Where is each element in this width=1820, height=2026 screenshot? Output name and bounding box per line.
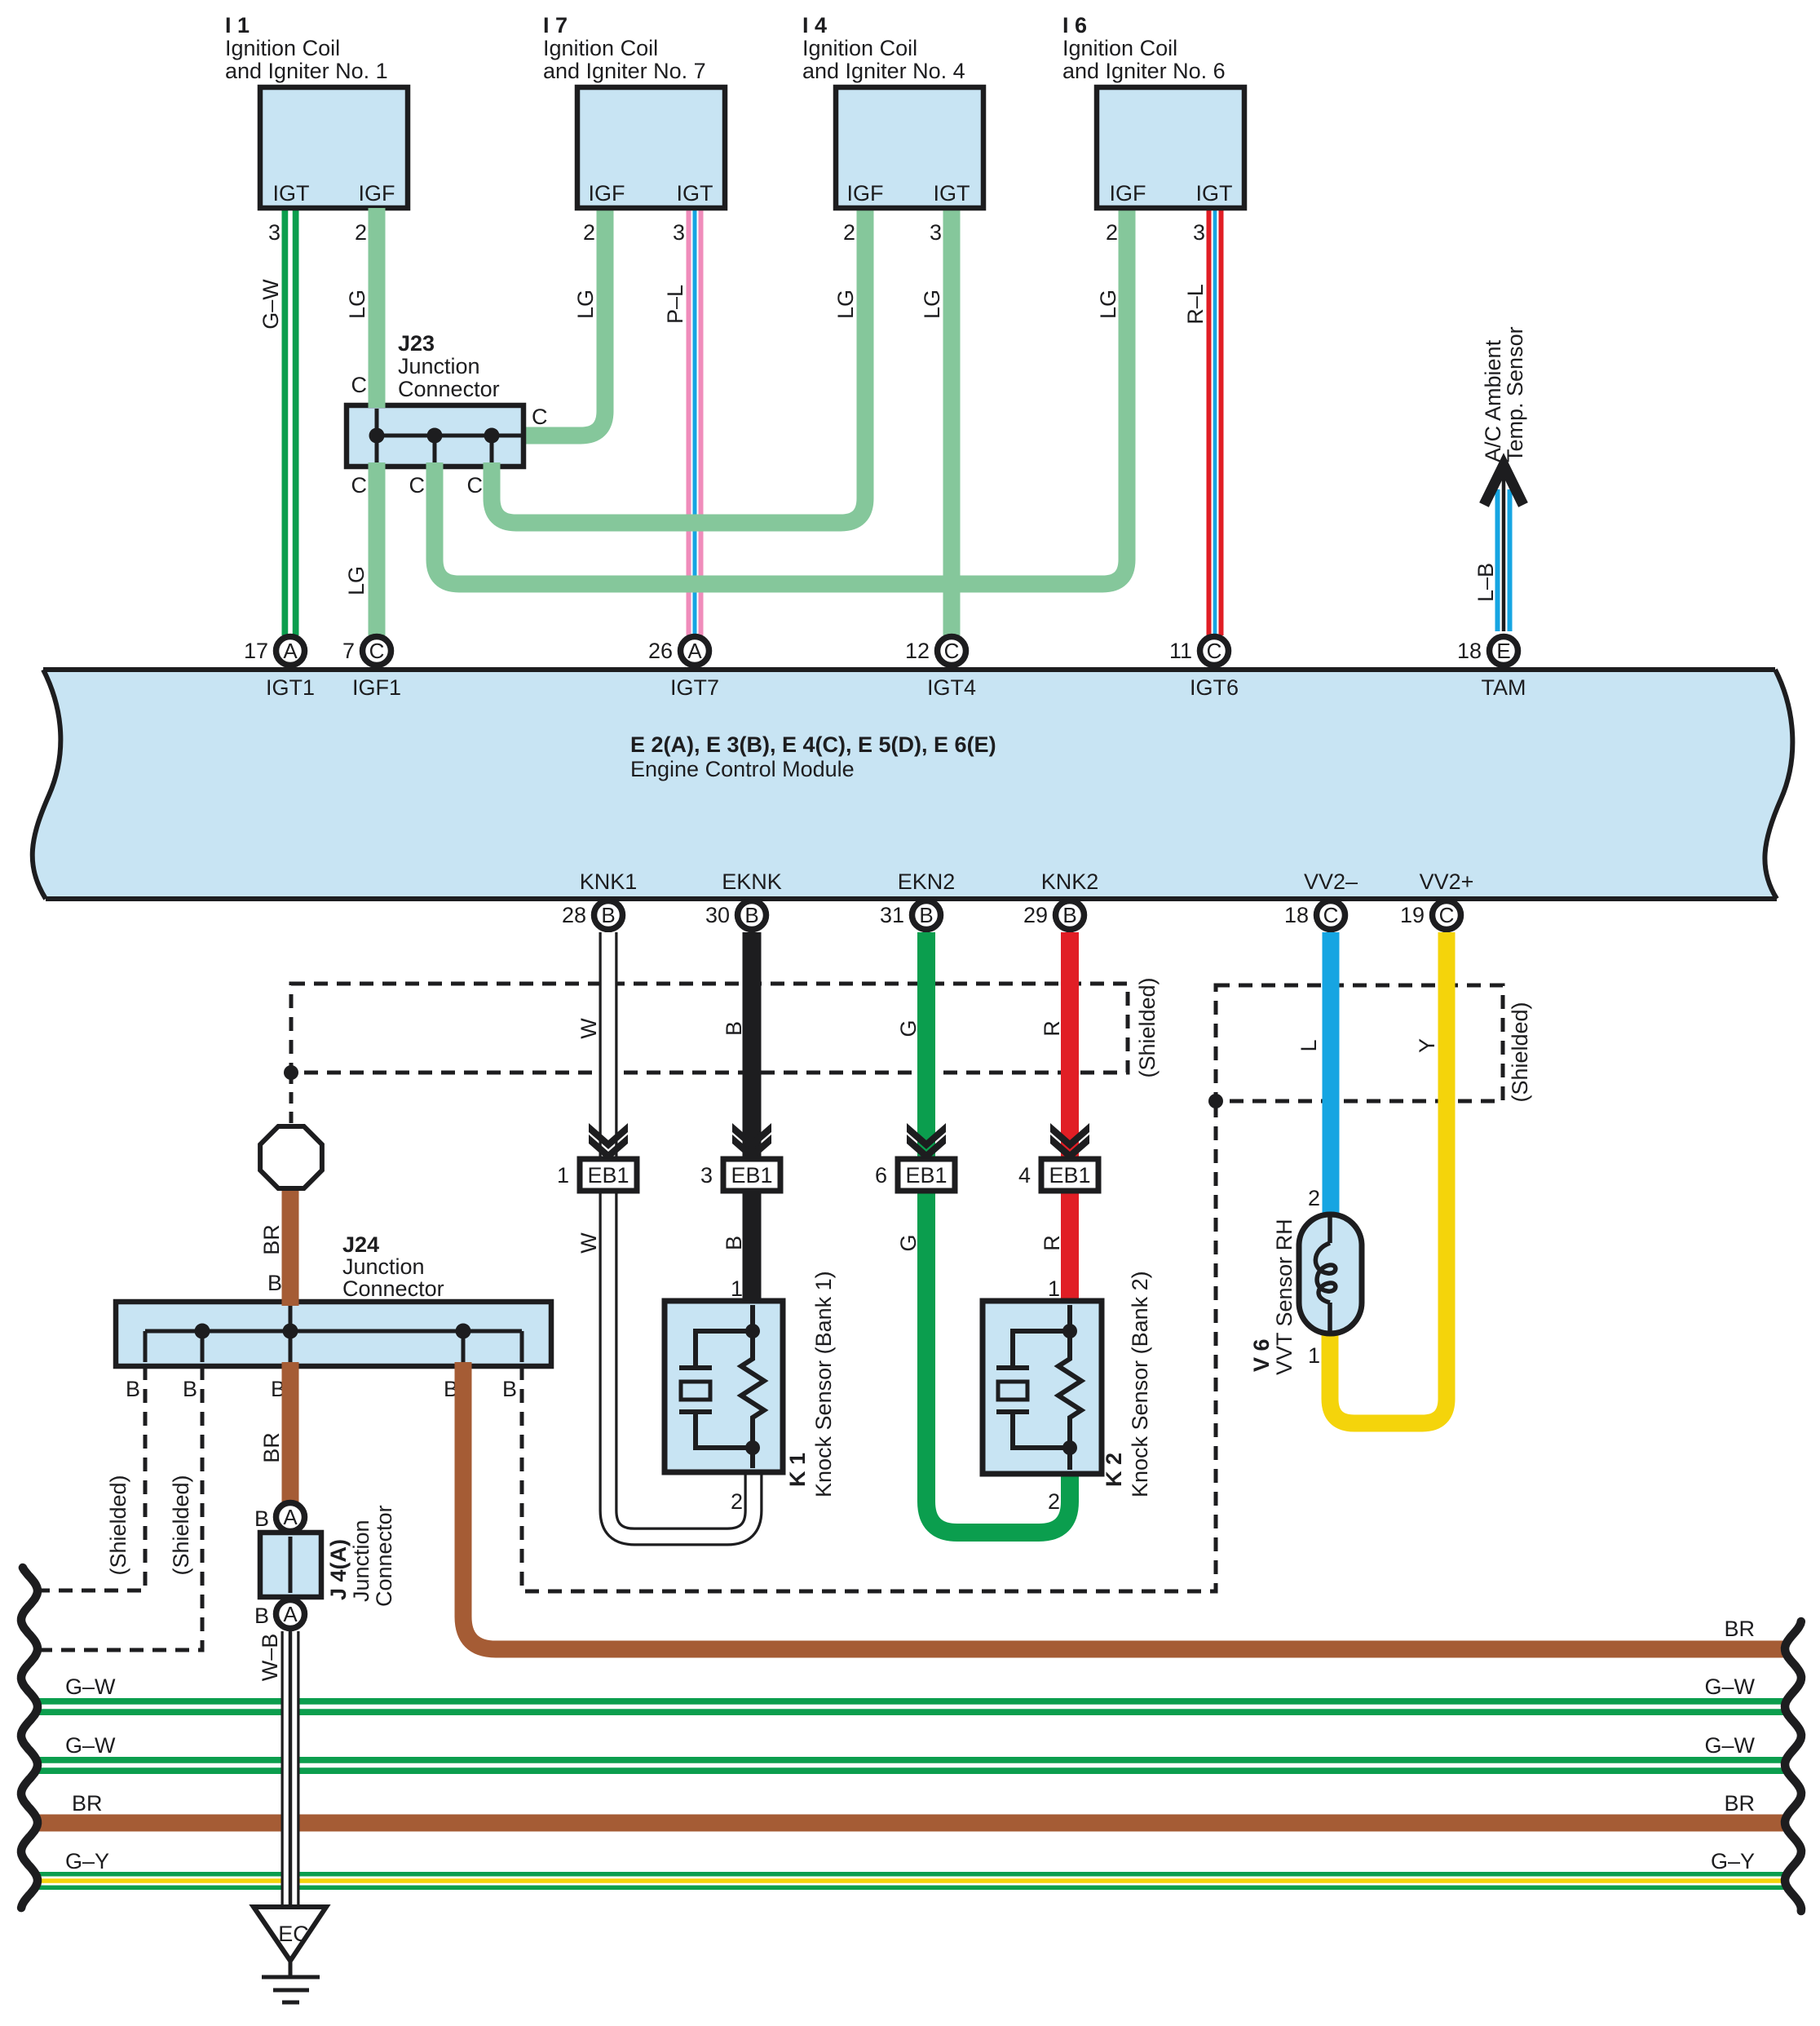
- wire B EKNK (ECM 30B to EB1-3 to K1 pin1): [743, 932, 762, 1305]
- ground EC: [254, 1907, 326, 2002]
- svg-text:Ignition Coil: Ignition Coil: [225, 36, 340, 60]
- svg-text:K 2: K 2: [1102, 1453, 1126, 1487]
- svg-text:A: A: [687, 639, 702, 663]
- J24 divider pin5: [520, 1331, 524, 1362]
- J23 junction dot 2: [427, 428, 443, 444]
- svg-text:A: A: [283, 639, 298, 663]
- bus G-W 1: [34, 1698, 1784, 1715]
- shield dashed box (knock sensor wires): [291, 984, 1128, 1073]
- svg-text:LG: LG: [345, 290, 369, 319]
- connector EB1-4: [1018, 1159, 1098, 1191]
- svg-text:Junction: Junction: [398, 354, 480, 378]
- svg-text:C: C: [409, 473, 426, 498]
- svg-text:G–Y: G–Y: [1711, 1849, 1755, 1873]
- svg-text:W–B: W–B: [258, 1634, 282, 1682]
- svg-text:IGF: IGF: [589, 181, 625, 206]
- svg-text:G–W: G–W: [1704, 1674, 1755, 1699]
- ECM pin 11 C (IGT6): [1169, 637, 1239, 701]
- wire R KNK2 (ECM 29B to EB1-4 to K2 pin1): [1061, 932, 1079, 1305]
- svg-text:(Shielded): (Shielded): [1508, 1002, 1532, 1102]
- svg-text:W: W: [576, 1232, 601, 1254]
- svg-text:6: 6: [875, 1163, 887, 1188]
- svg-text:IGT: IGT: [934, 181, 970, 206]
- J23 junction dot 1: [369, 428, 385, 444]
- svg-text:VV2–: VV2–: [1304, 869, 1358, 894]
- svg-text:18: 18: [1457, 639, 1482, 663]
- wire BR octagon to J24: [282, 1183, 299, 1305]
- svg-text:C: C: [1323, 903, 1339, 927]
- svg-text:IGT: IGT: [1196, 181, 1233, 206]
- bus G-W 2: [34, 1757, 1784, 1774]
- svg-text:28: 28: [562, 903, 586, 927]
- V6 internal coil: [1315, 1217, 1335, 1331]
- svg-text:29: 29: [1023, 903, 1048, 927]
- wire LG over J23 bottom border pin2: [426, 462, 444, 489]
- svg-text:2: 2: [1106, 220, 1118, 245]
- svg-text:G: G: [896, 1020, 921, 1037]
- svg-text:EB1: EB1: [905, 1163, 947, 1188]
- svg-text:R: R: [1040, 1020, 1064, 1037]
- svg-text:2: 2: [1048, 1489, 1060, 1514]
- knock sensor K2 box: [983, 1301, 1102, 1474]
- svg-text:LG: LG: [1096, 290, 1120, 319]
- svg-text:30: 30: [705, 903, 730, 927]
- svg-text:3: 3: [930, 220, 942, 245]
- shield octagon: [260, 1126, 322, 1188]
- bus G-Y: [34, 1872, 1784, 1890]
- svg-text:J 4(A): J 4(A): [326, 1539, 351, 1600]
- svg-text:E 2(A), E 3(B), E 4(C), E 5(D): E 2(A), E 3(B), E 4(C), E 5(D), E 6(E): [630, 732, 996, 757]
- wire R-L IGT6 (I6 pin3 to ECM 11C): [1207, 208, 1224, 635]
- svg-text:C: C: [1207, 639, 1222, 663]
- svg-text:KNK2: KNK2: [1041, 869, 1099, 894]
- J23 divider pin2: [433, 436, 437, 463]
- svg-text:12: 12: [905, 639, 930, 663]
- wire W KNK1 (ECM 28B to EB1-1 to K1 pin2): [608, 932, 753, 1537]
- svg-text:IGF: IGF: [359, 181, 395, 206]
- svg-text:J23: J23: [398, 331, 435, 356]
- svg-text:Knock Sensor (Bank 2): Knock Sensor (Bank 2): [1128, 1271, 1152, 1497]
- ECM pin 26 A (IGT7): [648, 637, 719, 701]
- svg-text:G–W: G–W: [65, 1674, 116, 1699]
- J24 junction dot 2: [283, 1324, 298, 1339]
- svg-text:V 6: V 6: [1249, 1338, 1274, 1372]
- svg-text:C: C: [1439, 903, 1455, 927]
- svg-text:Junction: Junction: [342, 1254, 425, 1279]
- K2 junction dot bottom: [1062, 1440, 1077, 1455]
- svg-text:C: C: [532, 405, 548, 429]
- J24 divider pin2: [201, 1331, 205, 1362]
- J24 divider pin3: [289, 1306, 293, 1362]
- svg-text:I 1: I 1: [225, 13, 250, 38]
- svg-text:IGF1: IGF1: [352, 675, 401, 700]
- connector EB1-3: [700, 1159, 780, 1191]
- wire LG over J23 bottom border pin1: [369, 462, 386, 635]
- VVT sensor V6: [1299, 1214, 1362, 1334]
- svg-text:G–Y: G–Y: [65, 1849, 109, 1873]
- wire LG J23 pin C2 to I6 IGF: [435, 208, 1127, 584]
- J24 junction dot 3: [456, 1324, 471, 1339]
- svg-text:B: B: [722, 1236, 746, 1250]
- ECM pin 18 E (TAM): [1457, 637, 1526, 701]
- svg-text:26: 26: [648, 639, 673, 663]
- arrow to A/C ambient temp sensor: [1484, 465, 1523, 505]
- svg-text:2: 2: [355, 220, 367, 245]
- svg-text:EB1: EB1: [587, 1163, 629, 1188]
- K2 junction dot top: [1062, 1324, 1077, 1338]
- svg-text:Connector: Connector: [342, 1276, 444, 1301]
- svg-text:R: R: [1040, 1235, 1064, 1251]
- ignition coil box I1: [260, 87, 408, 208]
- K1 junction dot bottom: [745, 1440, 760, 1455]
- J23 junction dot 3: [484, 428, 500, 444]
- wire BR J24 to J4(A): [282, 1362, 299, 1502]
- svg-text:Ignition Coil: Ignition Coil: [802, 36, 917, 60]
- svg-text:VVT Sensor RH: VVT Sensor RH: [1272, 1219, 1297, 1375]
- svg-text:IGT7: IGT7: [670, 675, 719, 700]
- svg-text:Knock Sensor (Bank 1): Knock Sensor (Bank 1): [811, 1271, 836, 1497]
- chevron arrow EB1-1: [589, 1123, 628, 1161]
- svg-text:L–B: L–B: [1473, 563, 1498, 602]
- ECM pin 7 C (IGF1): [342, 637, 401, 701]
- svg-text:B: B: [254, 1506, 269, 1531]
- J23 internal bus line: [377, 434, 523, 438]
- svg-text:IGT1: IGT1: [266, 675, 315, 700]
- wire LG IGF1 (I1 pin2 through J23 to ECM 7C): [369, 208, 386, 635]
- ECM pin 12 C (IGT4): [905, 637, 976, 701]
- svg-text:(Shielded): (Shielded): [169, 1475, 193, 1575]
- svg-text:and Igniter No. 7: and Igniter No. 7: [543, 59, 706, 83]
- svg-text:P–L: P–L: [663, 285, 687, 324]
- ECM band E2(A)..E6(E): [33, 670, 1793, 899]
- svg-text:B: B: [183, 1377, 197, 1401]
- wire LG J23 pin C3 to I4 IGF: [492, 208, 865, 523]
- svg-text:7: 7: [342, 639, 355, 663]
- svg-text:2: 2: [1308, 1186, 1320, 1210]
- svg-text:R–L: R–L: [1183, 284, 1208, 325]
- svg-text:BR: BR: [259, 1224, 284, 1255]
- svg-text:Connector: Connector: [372, 1505, 396, 1607]
- svg-text:G–W: G–W: [1704, 1733, 1755, 1758]
- K2 internal right branch with resistor: [1058, 1305, 1081, 1470]
- chevron arrow EB1-4: [1050, 1123, 1089, 1161]
- J24 internal bus line: [145, 1329, 522, 1334]
- svg-text:IGT: IGT: [273, 181, 310, 206]
- K1 internal right branch with resistor: [741, 1305, 764, 1468]
- wire L-B TAM (ECM 18E to A/C ambient temp sensor): [1495, 467, 1513, 631]
- wire BR over J24 top border: [282, 1296, 299, 1306]
- J24 divider pin4: [462, 1331, 466, 1362]
- svg-text:Ignition Coil: Ignition Coil: [1062, 36, 1177, 60]
- junction connector J4(A) circle A top: [276, 1503, 305, 1532]
- svg-text:EB1: EB1: [731, 1163, 772, 1188]
- chevron arrow EB1-3: [732, 1123, 771, 1161]
- wire BR J24 to right edge bus: [463, 1362, 1784, 1649]
- shield dashed box (VVT wires): [1216, 985, 1503, 1101]
- svg-text:Temp. Sensor: Temp. Sensor: [1503, 326, 1527, 462]
- svg-text:11: 11: [1169, 639, 1192, 663]
- svg-text:LG: LG: [344, 566, 369, 595]
- junction dot VVT shield: [1208, 1094, 1223, 1108]
- svg-text:W: W: [576, 1018, 601, 1039]
- ECM pin 28 B (KNK1): [562, 869, 637, 930]
- junction connector J4(A) circle A bottom: [276, 1600, 305, 1629]
- connector EB1-1: [557, 1159, 637, 1191]
- svg-text:LG: LG: [573, 290, 598, 319]
- svg-text:(Shielded): (Shielded): [1135, 977, 1160, 1077]
- svg-text:EB1: EB1: [1049, 1163, 1090, 1188]
- K1 internal capacitor branch: [679, 1331, 753, 1448]
- svg-text:BR: BR: [1724, 1791, 1755, 1816]
- svg-text:EKN2: EKN2: [898, 869, 956, 894]
- svg-text:B: B: [744, 903, 758, 927]
- svg-text:IGT6: IGT6: [1190, 675, 1239, 700]
- svg-text:Y: Y: [1415, 1038, 1439, 1053]
- svg-text:1: 1: [731, 1276, 743, 1301]
- svg-text:IGF: IGF: [1110, 181, 1146, 206]
- wire W-B J4(A) to EC ground: [281, 1631, 300, 1909]
- svg-text:B: B: [919, 903, 933, 927]
- svg-text:and Igniter No. 1: and Igniter No. 1: [225, 59, 388, 83]
- svg-text:2: 2: [731, 1489, 743, 1514]
- shield dashed wire J24 pin2 to left edge: [31, 1366, 202, 1650]
- svg-text:IGT4: IGT4: [927, 675, 976, 700]
- J23 divider pin1: [375, 409, 379, 463]
- ignition coil box I6: [1097, 87, 1244, 208]
- svg-text:BR: BR: [72, 1791, 103, 1816]
- K2 internal capacitor branch: [996, 1331, 1070, 1448]
- svg-text:LG: LG: [920, 290, 944, 319]
- junction connector J23: [347, 405, 523, 467]
- ECM pin 29 B (KNK2): [1023, 869, 1098, 930]
- ECM pin 17 A (IGT1): [244, 637, 315, 701]
- svg-text:VV2+: VV2+: [1420, 869, 1474, 894]
- shield dashed wire J24 pin1 to left edge: [31, 1366, 145, 1590]
- svg-text:B: B: [1062, 903, 1076, 927]
- bus BR: [34, 1815, 1784, 1832]
- svg-text:I 4: I 4: [802, 13, 827, 38]
- wire G-W IGT1 (I1 pin3 to ECM 17A): [282, 208, 299, 635]
- svg-text:C: C: [351, 373, 368, 397]
- svg-text:LG: LG: [833, 290, 858, 319]
- shield dashed wire J24 right pin to VVT shield: [522, 1101, 1216, 1591]
- junction connector J4(A) box: [260, 1533, 321, 1597]
- svg-text:L: L: [1297, 1039, 1321, 1051]
- J23 divider pin3: [490, 436, 494, 463]
- svg-text:BR: BR: [259, 1432, 284, 1463]
- svg-text:Engine Control Module: Engine Control Module: [630, 757, 855, 781]
- svg-text:G–W: G–W: [65, 1733, 116, 1758]
- svg-text:C: C: [944, 639, 960, 663]
- svg-text:and Igniter No. 6: and Igniter No. 6: [1062, 59, 1226, 83]
- svg-text:A/C Ambient: A/C Ambient: [1481, 339, 1505, 462]
- wire LG over J23 bottom border pin3: [484, 462, 501, 489]
- chevron arrow EB1-6: [907, 1123, 946, 1161]
- svg-text:KNK1: KNK1: [580, 869, 638, 894]
- svg-text:31: 31: [880, 903, 904, 927]
- wire LG over J23 top border: [369, 208, 386, 408]
- svg-text:J24: J24: [342, 1232, 379, 1257]
- connector EB1-6: [875, 1159, 955, 1191]
- svg-text:C: C: [369, 639, 385, 663]
- ECM pin 30 B (EKNK): [705, 869, 782, 930]
- svg-text:1: 1: [1048, 1276, 1060, 1301]
- wire LG I7-IGF to J23 right pin: [523, 208, 605, 436]
- svg-text:A: A: [283, 1505, 298, 1529]
- svg-text:G–W: G–W: [258, 279, 283, 330]
- wire G EKN2 (ECM 31B to EB1-6 to K2 pin2): [926, 932, 1070, 1533]
- svg-text:(Shielded): (Shielded): [106, 1475, 130, 1575]
- svg-text:Junction: Junction: [349, 1519, 373, 1602]
- svg-text:B: B: [502, 1377, 517, 1401]
- svg-text:B: B: [722, 1021, 746, 1036]
- svg-text:G: G: [896, 1234, 921, 1251]
- svg-text:BR: BR: [1724, 1617, 1755, 1641]
- junction dot shield box left: [284, 1065, 298, 1080]
- svg-text:EC: EC: [278, 1922, 309, 1946]
- shield drain dashed to octagon: [289, 1073, 294, 1125]
- svg-text:I 6: I 6: [1062, 13, 1087, 38]
- wire L VV2- (ECM 18C to VVT pin2): [1323, 932, 1340, 1217]
- svg-text:TAM: TAM: [1482, 675, 1526, 700]
- ECM pin 18 C (VV2-): [1284, 869, 1358, 930]
- svg-text:A: A: [283, 1602, 298, 1626]
- svg-text:B: B: [601, 903, 615, 927]
- K1 junction dot top: [745, 1324, 760, 1338]
- svg-text:B: B: [126, 1377, 140, 1401]
- svg-text:2: 2: [843, 220, 855, 245]
- wire-end squiggle left: [21, 1568, 38, 1908]
- svg-text:1: 1: [1308, 1343, 1320, 1368]
- svg-text:3: 3: [700, 1163, 713, 1188]
- ignition coil box I4: [836, 87, 983, 208]
- svg-text:18: 18: [1284, 903, 1309, 927]
- wire-end squiggle right: [1785, 1621, 1801, 1911]
- ECM pin 19 C (VV2+): [1400, 869, 1473, 930]
- junction connector J24: [116, 1302, 551, 1366]
- svg-text:3: 3: [268, 220, 281, 245]
- svg-text:1: 1: [557, 1163, 569, 1188]
- wire P-L IGT7 (I7 pin3 to ECM 26A): [687, 208, 704, 635]
- wire Y VV2+ (ECM 19C to VVT pin1): [1330, 932, 1447, 1423]
- svg-text:C: C: [467, 473, 484, 498]
- svg-text:E: E: [1496, 639, 1510, 663]
- svg-text:Ignition Coil: Ignition Coil: [543, 36, 658, 60]
- knock sensor K1 box: [665, 1301, 783, 1472]
- svg-text:4: 4: [1018, 1163, 1031, 1188]
- svg-text:IGT: IGT: [677, 181, 713, 206]
- J24 divider pin1: [144, 1331, 148, 1362]
- svg-text:I 7: I 7: [543, 13, 568, 38]
- svg-text:3: 3: [673, 220, 685, 245]
- svg-text:Connector: Connector: [398, 377, 500, 401]
- ECM pin 31 B (EKN2): [880, 869, 955, 930]
- svg-text:EKNK: EKNK: [722, 869, 782, 894]
- svg-text:and Igniter No. 4: and Igniter No. 4: [802, 59, 965, 83]
- svg-text:3: 3: [1193, 220, 1205, 245]
- svg-text:K 1: K 1: [785, 1453, 810, 1487]
- svg-text:19: 19: [1400, 903, 1425, 927]
- svg-text:C: C: [351, 473, 368, 498]
- svg-text:17: 17: [244, 639, 268, 663]
- wire LG IGT4 (I4 pin3 to ECM 12C): [943, 208, 961, 635]
- ignition coil box I7: [577, 87, 725, 208]
- svg-text:B: B: [254, 1604, 269, 1628]
- svg-text:2: 2: [583, 220, 595, 245]
- svg-text:IGF: IGF: [847, 181, 884, 206]
- J24 junction dot 1: [195, 1324, 210, 1339]
- svg-text:B: B: [267, 1271, 282, 1295]
